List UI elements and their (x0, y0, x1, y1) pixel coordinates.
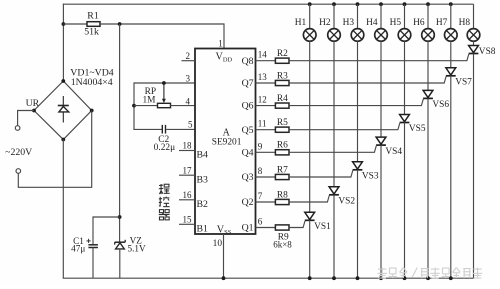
node junction lamp H1 at top rail (308, 2, 312, 6)
wire gate lead R4 to thyristor VS6 (289, 99, 423, 106)
svg-text:Q8: Q8 (242, 56, 254, 67)
svg-text:11: 11 (258, 119, 267, 129)
wire bridge left vertex to upper AC terminal (18, 111, 34, 126)
node junction lamp H4 at top rail (379, 2, 383, 6)
node junction lamp H3 at top rail (356, 2, 360, 6)
svg-text:2: 2 (186, 51, 191, 61)
resistor R6 (275, 150, 289, 155)
potentiometer RP 1M body (158, 103, 171, 107)
svg-text:13: 13 (258, 72, 268, 82)
thyristor VS4 (376, 137, 386, 145)
wire VZ column from R1 junction down to zener (119, 24, 121, 242)
wire C1 bottom lead (92, 248, 94, 279)
svg-text:R8: R8 (277, 190, 288, 200)
svg-text:H1: H1 (295, 18, 307, 28)
wire thyristor VS4 cathode to bottom rail (380, 145, 382, 278)
svg-text:6: 6 (258, 217, 263, 227)
svg-text:VS6: VS6 (432, 100, 449, 110)
wire left rail of RP/C2 loop (133, 82, 135, 130)
terminal lower AC input circle (16, 169, 21, 174)
resistor R3 (275, 80, 289, 85)
node junction column H2 at bottom rail (332, 276, 336, 280)
resistor R7 (275, 174, 289, 179)
node junction column H6 at bottom rail (426, 276, 430, 280)
svg-text:H8: H8 (459, 18, 471, 28)
node junction column H4 at bottom rail (379, 276, 383, 280)
svg-text:VS5: VS5 (409, 124, 426, 134)
wire pin5 row right segment C2 to IC (166, 128, 195, 130)
wire pin4 row left of RP (134, 105, 158, 107)
svg-text:R3: R3 (277, 71, 288, 81)
svg-text:1: 1 (218, 39, 223, 49)
svg-text:3: 3 (186, 73, 191, 83)
svg-text:R7: R7 (277, 165, 288, 175)
svg-text:10: 10 (213, 239, 223, 249)
svg-text:17: 17 (183, 165, 193, 175)
svg-text:1M: 1M (142, 96, 156, 106)
wire lamp H7 to thyristor VS7 anode (450, 41, 452, 68)
svg-text:UR: UR (26, 98, 40, 109)
wire drop from top rail to lamp H4 (380, 4, 382, 29)
node bridge left vertex (32, 109, 36, 113)
svg-text:18: 18 (183, 141, 193, 151)
op-amp U1 programmable controller IC A SE9201 box (195, 49, 256, 235)
lamp H2 symbol circle with cross (328, 29, 341, 42)
wire lamp H5 to thyristor VS5 anode (404, 41, 406, 115)
node junction column H3 at bottom rail (356, 276, 360, 280)
wire pin1 drop into IC VDD (223, 23, 225, 48)
watermark toutiao text bottom right (378, 268, 483, 279)
lamp H4 symbol circle with cross (375, 29, 388, 42)
svg-text:VS8: VS8 (479, 47, 496, 57)
pin 17 stub B3 (179, 174, 195, 176)
wire gate lead R8 to thyristor VS2 (289, 195, 329, 202)
wire drop from top rail to lamp H7 (450, 4, 452, 29)
wire Q5 row from IC to resistor R5 (256, 129, 276, 131)
svg-text:VS2: VS2 (338, 197, 355, 207)
wire lower AC terminal to bridge right vertex (18, 111, 91, 188)
lamp H3 symbol circle with cross (351, 29, 364, 42)
pin 15 stub B1 (179, 223, 195, 225)
wire Q8 row from IC to resistor R2 (256, 60, 276, 62)
lamp H8 symbol circle with cross (467, 29, 480, 42)
wire thyristor VS5 cathode to bottom rail (404, 123, 406, 279)
node junction lamp H2 at top rail (332, 2, 336, 6)
svg-text:Q1: Q1 (242, 223, 254, 234)
pin 16 stub B2 (179, 199, 195, 201)
node junction lamp H7 at top rail (449, 2, 453, 6)
wire thyristor VS2 cathode to bottom rail (333, 195, 335, 278)
capacitor C2 0.22u (162, 125, 165, 134)
node junction column H1 at bottom rail (308, 276, 312, 280)
resistor R5 (275, 127, 289, 132)
svg-text:VSS: VSS (217, 224, 232, 236)
wire thyristor VS3 cathode to bottom rail (357, 170, 359, 278)
svg-text:14: 14 (258, 50, 268, 60)
wire lamp H6 to thyristor VS6 anode (427, 41, 429, 90)
svg-text:Q3: Q3 (242, 172, 254, 183)
thyristor VS2 (329, 187, 339, 195)
wire bridge bottom vertex down to bottom rail (62, 140, 64, 279)
thyristor VS8 (469, 46, 479, 54)
wire C1 branch horizontal (93, 216, 120, 218)
svg-text:Q7: Q7 (242, 78, 254, 89)
node junction left rail at pin4 row (132, 104, 136, 108)
svg-text:51k: 51k (84, 27, 99, 38)
svg-text:R5: R5 (277, 118, 288, 128)
resistor R1 (87, 22, 100, 27)
svg-text:8: 8 (258, 166, 263, 176)
wire drop from top rail to lamp H2 (333, 4, 335, 29)
svg-text:16: 16 (183, 190, 193, 200)
svg-text:R2: R2 (277, 49, 288, 59)
svg-text:Q4: Q4 (242, 147, 254, 158)
resistor R4 (275, 103, 289, 108)
svg-text:H7: H7 (436, 18, 448, 28)
wire drop from top rail to lamp H6 (427, 4, 429, 29)
potentiometer RP wiper arrow (162, 83, 166, 103)
svg-text:7: 7 (258, 191, 263, 201)
svg-text:R1: R1 (87, 10, 99, 21)
svg-text:R6: R6 (277, 141, 288, 151)
svg-text:5.1V: 5.1V (128, 244, 146, 254)
wire Q3 row from IC to resistor R7 (256, 176, 276, 178)
svg-text:R4: R4 (277, 94, 288, 104)
node junction VZ column with C1 branch at y=217 (118, 215, 122, 219)
pin 2 stub unconnected (182, 60, 196, 62)
wire C1 top lead (92, 216, 94, 244)
svg-text:H5: H5 (390, 18, 402, 28)
svg-text:~220V: ~220V (5, 147, 32, 158)
wire Q6 row from IC to resistor R4 (256, 105, 276, 107)
node bridge top vertex (61, 79, 65, 83)
svg-text:Q2: Q2 (242, 197, 254, 208)
node junction VSS at bottom rail (222, 276, 226, 280)
svg-text:B1: B1 (197, 224, 209, 235)
wire VZ bottom lead (119, 249, 121, 278)
node bridge bottom vertex (61, 138, 65, 142)
svg-text:VS4: VS4 (385, 147, 402, 157)
pin 18 stub B4 (179, 150, 195, 152)
capacitor C1 47u electrolytic (87, 239, 98, 248)
terminal upper AC input circle (15, 126, 20, 131)
wire drop from top rail to lamp H8 (473, 4, 475, 29)
wire gate lead R3 to thyristor VS7 (289, 76, 446, 83)
svg-text:12: 12 (258, 95, 267, 105)
node junction lamp H5 at top rail (403, 2, 407, 6)
wire pin4 row right of RP to IC (170, 105, 195, 107)
wire gate lead R6 to thyristor VS4 (289, 146, 376, 153)
wire VSS pin 10 drop to bottom rail (223, 234, 225, 278)
wire R1 row left segment (63, 23, 87, 25)
svg-text:VDD: VDD (216, 52, 233, 64)
wire lamp H1 to thyristor VS1 anode (309, 41, 311, 212)
wire lamp H2 to thyristor VS2 anode (333, 41, 335, 187)
svg-text:VS3: VS3 (362, 172, 379, 182)
zener diode VZ 5.1V (115, 240, 126, 249)
lamp H7 symbol circle with cross (445, 29, 458, 42)
resistor R2 (275, 58, 289, 63)
svg-text:H6: H6 (413, 18, 425, 28)
svg-text:5: 5 (188, 119, 193, 129)
label program controller chinese annotation 程控器 (159, 184, 170, 194)
svg-text:VS7: VS7 (455, 78, 472, 88)
node bridge right vertex (90, 109, 94, 113)
node junction column H5 at bottom rail (403, 276, 407, 280)
wire drop from top rail to lamp H5 (404, 4, 406, 29)
wire gate lead R5 to thyristor VS5 (289, 123, 400, 130)
lamp H5 symbol circle with cross (398, 29, 411, 42)
wire lamp H4 to thyristor VS4 anode (380, 41, 382, 137)
node junction column H7 at bottom rail (449, 276, 453, 280)
svg-text:6k×8: 6k×8 (273, 240, 292, 250)
svg-text:VS1: VS1 (314, 222, 331, 232)
wire Q1 row from IC to resistor R9 (256, 227, 276, 229)
wire thyristor VS8 cathode to bottom rail (473, 54, 475, 279)
wire Q2 row from IC to resistor R8 (256, 201, 276, 203)
lamp H6 symbol circle with cross (422, 29, 435, 42)
wire thyristor VS6 cathode to bottom rail (427, 98, 429, 278)
svg-text:B2: B2 (197, 199, 209, 210)
thyristor VS3 (353, 162, 363, 170)
node junction RP wiper branch on pin3 wire (162, 81, 166, 85)
thyristor VS7 (446, 68, 456, 76)
wire drop from top rail to lamp H1 (309, 4, 311, 29)
wire from top rail down to bridge top vertex (62, 4, 64, 82)
wire thyristor VS1 cathode to bottom rail (309, 220, 311, 278)
svg-text:B3: B3 (197, 174, 209, 185)
svg-text:1N4004×4: 1N4004×4 (71, 77, 113, 88)
wire gate lead R2 to thyristor VS8 (289, 54, 469, 61)
bridge rectifier UR diamond VD1-VD4 (34, 81, 92, 140)
svg-text:47μ: 47μ (71, 244, 85, 254)
thyristor VS1 (305, 212, 315, 220)
svg-text:H3: H3 (343, 18, 355, 28)
wire IC pin3 row (134, 82, 195, 84)
thyristor VS5 (400, 115, 410, 123)
svg-text:H2: H2 (319, 18, 331, 28)
wire pin5 row left segment to C2 (133, 128, 161, 130)
wire thyristor VS7 cathode to bottom rail (450, 76, 452, 278)
svg-text:Q6: Q6 (242, 101, 254, 112)
node junction R1 branch at (63,24) (62, 22, 66, 26)
svg-text:B4: B4 (197, 150, 209, 161)
wire gate lead R9 to thyristor VS1 (289, 221, 305, 228)
svg-text:0.22μ: 0.22μ (154, 143, 175, 153)
svg-text:4: 4 (186, 97, 191, 107)
wire top rail (DC+ bus to lamps) (63, 3, 474, 5)
svg-text:Q5: Q5 (242, 125, 254, 136)
svg-text:SE9201: SE9201 (212, 137, 242, 147)
wire lamp H8 to thyristor VS8 anode (473, 41, 475, 46)
wire lamp H3 to thyristor VS3 anode (357, 41, 359, 162)
node junction at R1 right with VZ branch (118, 22, 122, 26)
svg-text:9: 9 (258, 141, 263, 151)
wire gate lead R7 to thyristor VS3 (289, 170, 353, 177)
lamp H1 symbol circle with cross (303, 29, 316, 42)
wire bottom rail (ground return bus) (63, 277, 474, 279)
wire R1 row right segment to IC pin 1 (100, 23, 224, 25)
wire drop from top rail to lamp H3 (357, 4, 359, 29)
diode symbol inside bridge (58, 96, 69, 123)
wire Q7 row from IC to resistor R3 (256, 82, 276, 84)
node junction lamp H6 at top rail (426, 2, 430, 6)
resistor R9 (275, 225, 289, 230)
resistor R8 (275, 199, 289, 204)
wire Q4 row from IC to resistor R6 (256, 151, 276, 153)
svg-text:15: 15 (183, 215, 193, 225)
thyristor VS6 (423, 90, 433, 98)
svg-text:H4: H4 (366, 18, 378, 28)
